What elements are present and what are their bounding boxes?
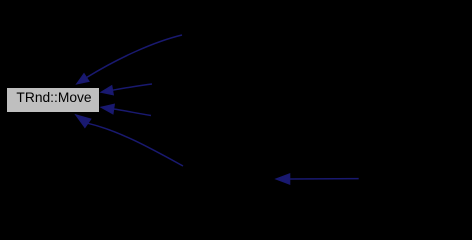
wire edge1 top curve into node top: [77, 35, 183, 84]
svg-text:TRnd::Move: TRnd::Move: [16, 90, 91, 105]
wire edge2 into node right upper: [101, 84, 152, 95]
wire edge5 horizontal arrow bottom right: [276, 174, 359, 185]
wire edge4 bottom curve into node bottom: [76, 115, 183, 166]
node TRnd::Move: [7, 88, 100, 113]
wire edge3 into node right lower: [101, 104, 151, 115]
